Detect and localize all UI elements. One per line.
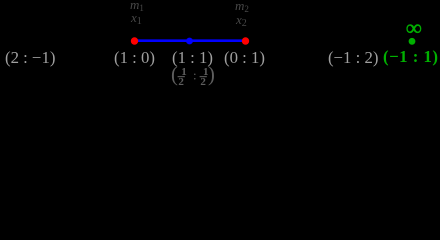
label x2 bbox=[236, 13, 247, 26]
label (1:0) bbox=[114, 50, 155, 67]
svg-text:2: 2 bbox=[178, 76, 184, 88]
svg-text:2: 2 bbox=[200, 76, 206, 88]
node at infinity (green dot) bbox=[409, 38, 416, 45]
wire: blue segment from x1 to x2 bbox=[0, 0, 440, 95]
label m1 bbox=[130, 0, 144, 11]
svg-text::: : bbox=[193, 68, 197, 83]
svg-text:(: ( bbox=[171, 64, 178, 86]
node midpoint (blue dot) bbox=[186, 38, 193, 45]
label x1 bbox=[131, 11, 142, 24]
label (2:-1) bbox=[5, 50, 55, 67]
node x2 (red dot) bbox=[242, 37, 249, 44]
label (1/2:1/2) fraction bbox=[168, 62, 218, 88]
label (1:1) bbox=[172, 50, 213, 67]
label (-1:1) green bbox=[383, 49, 439, 66]
label infinity bbox=[406, 17, 422, 39]
label (0:1) bbox=[224, 50, 265, 67]
label m2 bbox=[235, 0, 249, 12]
node x1 (red dot) bbox=[131, 37, 138, 44]
svg-text:): ) bbox=[208, 64, 215, 86]
label (-1:2) bbox=[328, 50, 378, 67]
